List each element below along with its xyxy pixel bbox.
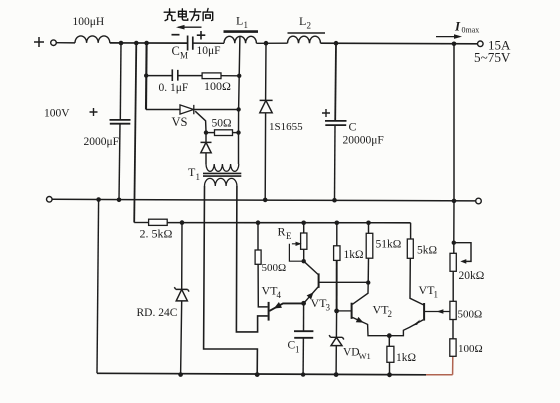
svg-text:100Ω: 100Ω (458, 343, 483, 355)
wire 500ohm to VT4 (258, 264, 268, 307)
svg-text:4: 4 (277, 290, 282, 300)
wire control rail main (168, 222, 411, 224)
label CM minus (172, 34, 180, 36)
svg-text:51kΩ: 51kΩ (376, 239, 402, 251)
svg-text:W1: W1 (359, 351, 371, 361)
svg-text:5~75V: 5~75V (474, 50, 511, 65)
resistor 2.5k box (149, 219, 168, 225)
svg-text:100μH: 100μH (73, 16, 105, 28)
diode at VS gate (201, 131, 212, 164)
resistor 5k branch (407, 223, 423, 305)
svg-text:1S1655: 1S1655 (269, 121, 303, 133)
capacitor 2000uF plates (110, 120, 131, 124)
wire L1 to L2 (256, 42, 287, 44)
wire top rail right (321, 42, 478, 45)
wire 2000uF to mid rail (119, 124, 120, 200)
transformer T1 primary (206, 164, 239, 171)
wire 100ohm to tap (222, 75, 240, 77)
svg-text:C: C (349, 120, 357, 134)
svg-text:1kΩ: 1kΩ (344, 249, 364, 261)
inductor 100uH (75, 36, 110, 43)
svg-text:1: 1 (295, 345, 300, 355)
svg-text:R: R (278, 225, 286, 239)
svg-text:1: 1 (196, 172, 201, 182)
minus input terminal (47, 197, 53, 203)
potentiometer 20k (450, 201, 471, 301)
output terminal minus (476, 198, 482, 204)
svg-text:I: I (454, 19, 461, 34)
inductor L1 (224, 36, 256, 43)
svg-text:10μF: 10μF (197, 45, 221, 57)
thyristor VS (180, 105, 239, 131)
wire 500ohm branch (257, 223, 259, 250)
wire top rail left (110, 42, 188, 44)
wire T1 secondary right lead (236, 186, 267, 332)
resistor 100ohm box (202, 73, 221, 79)
charge direction arrow (176, 25, 202, 30)
wire control rail (134, 222, 149, 224)
svg-text:1kΩ: 1kΩ (396, 352, 416, 364)
svg-text:20kΩ: 20kΩ (459, 270, 485, 282)
wire VS row left (146, 109, 180, 111)
svg-text:M: M (180, 51, 188, 61)
wire C branch top (334, 43, 337, 121)
label charge direction (Chinese) (164, 9, 213, 21)
plus input terminal (34, 37, 56, 47)
svg-text:500Ω: 500Ω (458, 309, 483, 321)
wire left drop to bottom rail (97, 200, 99, 374)
svg-text:1: 1 (244, 20, 249, 30)
capacitor C plates (325, 121, 347, 125)
capacitor C1 plates (294, 331, 313, 338)
svg-text:500Ω: 500Ω (262, 262, 287, 274)
zener RD24C branch (174, 223, 189, 375)
wire vertical to 2000uF (119, 43, 122, 120)
capacitor CM plates (188, 36, 193, 51)
resistor 1k first branch (334, 223, 340, 311)
arrow I0max (436, 34, 462, 39)
svg-text:VD: VD (343, 347, 360, 359)
svg-text:5kΩ: 5kΩ (417, 245, 437, 257)
svg-text:2: 2 (307, 21, 312, 31)
svg-text:50Ω: 50Ω (212, 118, 232, 130)
svg-text:1: 1 (434, 290, 439, 300)
wire bottom rail red segment (426, 356, 453, 375)
resistor 500ohm box (255, 250, 261, 264)
wire C to mid rail (334, 125, 337, 200)
inductor L2 (288, 36, 321, 43)
zener VDW1 (329, 311, 344, 375)
svg-text:100V: 100V (44, 108, 70, 120)
resistor 51k branch (366, 223, 373, 283)
transistor VT3 (304, 261, 368, 302)
capacitor 0.1uF plates (172, 69, 178, 81)
plus sign 2000uF (90, 108, 98, 116)
wire VT4 node to C1 (303, 303, 305, 331)
wire vertical x136 top to control rail (134, 43, 136, 223)
svg-text:C: C (172, 44, 180, 58)
label CM plus (197, 31, 206, 40)
potentiometer RE (289, 223, 307, 261)
transformer T1 core (203, 173, 241, 176)
svg-text:3: 3 (326, 303, 331, 313)
wire mid rail (52, 199, 476, 201)
transformer T1 secondary (205, 178, 237, 186)
transistor VT1 (389, 303, 450, 336)
resistor 100ohm output (450, 339, 456, 357)
svg-text:2. 5kΩ: 2. 5kΩ (140, 227, 173, 241)
wire C1 to bottom rail (302, 338, 304, 375)
svg-text:2000μF: 2000μF (84, 136, 120, 148)
svg-text:0max: 0max (462, 26, 480, 35)
wire T1 secondary left lead (204, 186, 258, 375)
wire 50ohm row left (206, 132, 215, 134)
wire bottom rail (97, 373, 426, 375)
svg-text:L: L (299, 14, 306, 28)
wire L1 tap down (239, 37, 240, 164)
svg-text:20000μF: 20000μF (343, 135, 384, 147)
wire 50ohm to right (233, 132, 239, 134)
svg-text:RD. 24C: RD. 24C (137, 307, 178, 319)
plus sign C (322, 109, 330, 117)
svg-text:0. 1μF: 0. 1μF (159, 82, 189, 94)
wire CM to L1 (193, 42, 224, 44)
inductor L1 core bar (224, 30, 259, 33)
svg-text:E: E (286, 231, 292, 241)
svg-text:2: 2 (388, 309, 393, 319)
output terminal 15A (478, 41, 484, 47)
wire 0.1uF to 100ohm (178, 75, 203, 77)
transistor VT4 (269, 302, 304, 321)
wire vertical x146 thick (145, 43, 148, 110)
svg-text:VS: VS (172, 115, 188, 129)
diode 1S1655 (260, 43, 273, 200)
resistor 50ohm box (215, 130, 233, 136)
transistor VT2 (337, 283, 390, 336)
svg-text:100Ω: 100Ω (204, 79, 231, 93)
svg-text:L: L (236, 14, 243, 28)
resistor 1k bottom branch (387, 336, 394, 375)
wire input to inductor (56, 42, 75, 44)
wire row2 left (146, 75, 172, 77)
potentiometer 500ohm output (450, 301, 456, 339)
inductor L2 core bar (288, 32, 326, 34)
wire right column top (453, 44, 455, 200)
